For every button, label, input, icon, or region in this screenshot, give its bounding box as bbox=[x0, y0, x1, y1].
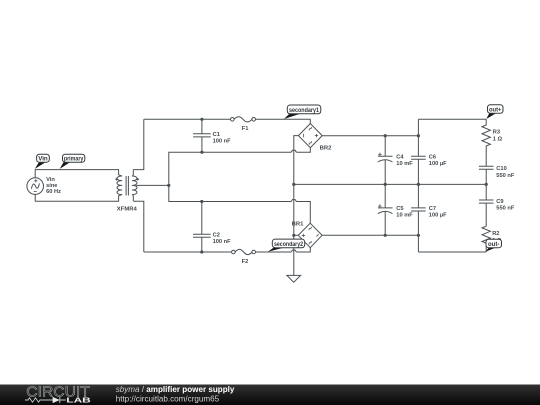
wire top rail right bbox=[418, 118, 486, 120]
svg-text:out-: out- bbox=[488, 241, 500, 248]
bridge rectifier BR2 markings bbox=[304, 127, 318, 145]
svg-text:550 nF: 550 nF bbox=[496, 173, 515, 179]
transformer XFMR4 primary phase dot bbox=[115, 178, 117, 180]
svg-text:BR2: BR2 bbox=[320, 146, 333, 152]
junction C5 bottom bbox=[384, 234, 387, 237]
wire secondary bottom lead bbox=[133, 201, 144, 252]
capacitor C10 lead bbox=[485, 169, 487, 184]
node label secondary1 bbox=[284, 105, 321, 119]
transformer XFMR4 primary coil bbox=[117, 170, 122, 201]
capacitor C2 labels bbox=[213, 232, 232, 245]
footer logo diode bbox=[53, 397, 60, 403]
wire BR2 minus to ground vertical bbox=[294, 136, 299, 276]
capacitor C9 plates bbox=[479, 200, 494, 203]
capacitor C5 leads bbox=[384, 184, 386, 235]
junction C4 top bbox=[384, 134, 387, 137]
junction C10 C9 mid bbox=[485, 183, 488, 186]
capacitor C5 plus bbox=[378, 204, 382, 208]
svg-text:out+: out+ bbox=[489, 107, 502, 114]
svg-text:LAB: LAB bbox=[66, 396, 91, 405]
capacitor C9 leads bbox=[485, 184, 487, 226]
capacitor C6 labels bbox=[429, 154, 447, 167]
capacitor C4 labels bbox=[396, 154, 413, 167]
junction BR1 plus ground bbox=[292, 234, 295, 237]
resistor R3 bbox=[482, 119, 490, 166]
svg-text:http://circuitlab.com/crgum65: http://circuitlab.com/crgum65 bbox=[116, 395, 220, 404]
svg-text:100 nF: 100 nF bbox=[213, 239, 232, 245]
svg-text:secondary1: secondary1 bbox=[289, 107, 319, 114]
wire bottom rail to F2 bbox=[144, 251, 232, 253]
junction C7 bottom bbox=[417, 234, 420, 237]
junction C2 top bbox=[200, 200, 203, 203]
bridge rectifier BR2 diamond bbox=[298, 124, 322, 148]
wire primary bottom bbox=[35, 194, 118, 201]
node label primary bbox=[60, 154, 85, 169]
svg-text:10 mF: 10 mF bbox=[396, 161, 413, 167]
ground symbol bbox=[287, 275, 301, 282]
wire secondary top lead bbox=[133, 119, 144, 169]
capacitor C10 plates bbox=[479, 166, 494, 169]
svg-text:C5: C5 bbox=[396, 206, 403, 212]
capacitor C6 leads bbox=[417, 119, 419, 184]
svg-text:100 µF: 100 µF bbox=[429, 213, 447, 219]
svg-text:C6: C6 bbox=[429, 154, 436, 160]
wire center tap bbox=[136, 184, 169, 186]
resistor R3 labels bbox=[493, 130, 503, 143]
wire top rail to F1 bbox=[144, 118, 231, 120]
junction mid rail ground bbox=[292, 183, 295, 186]
wire link left section bbox=[169, 152, 291, 201]
svg-text:C4: C4 bbox=[396, 154, 404, 160]
svg-text:1 Ω: 1 Ω bbox=[493, 136, 503, 142]
capacitor C1 plates bbox=[193, 134, 211, 137]
svg-text:F2: F2 bbox=[242, 259, 249, 265]
svg-text:60 Hz: 60 Hz bbox=[46, 189, 61, 195]
wire hop over ground at bottom rail bbox=[291, 250, 296, 252]
wire hop over ground at BR2 link bbox=[291, 150, 296, 152]
svg-text:550 nF: 550 nF bbox=[496, 206, 515, 212]
junction C6 top bbox=[417, 134, 420, 137]
wire mid rail bbox=[294, 183, 486, 185]
svg-text:R3: R3 bbox=[493, 130, 500, 136]
node label out- bbox=[486, 239, 502, 251]
capacitor C4 plates bbox=[378, 156, 393, 162]
wire BR2 bottom link bbox=[296, 148, 310, 153]
svg-text:10 mF: 10 mF bbox=[396, 213, 413, 219]
capacitor C7 leads bbox=[417, 184, 419, 252]
junction C6 C7 mid bbox=[417, 183, 420, 186]
capacitor C9 labels bbox=[496, 199, 515, 212]
fuse F2 bbox=[232, 250, 236, 254]
voltage source V1 labels bbox=[46, 177, 61, 195]
wire hop over ground at BR1 link bbox=[291, 200, 296, 202]
svg-text:C10: C10 bbox=[496, 166, 506, 172]
svg-text:C1: C1 bbox=[213, 132, 220, 138]
svg-text:F1: F1 bbox=[242, 126, 249, 132]
svg-text:Vin: Vin bbox=[38, 156, 48, 163]
svg-text:XFMR4: XFMR4 bbox=[117, 207, 138, 213]
bridge rectifier BR1 diamond bbox=[298, 223, 322, 248]
voltage source V1 minus sign bbox=[34, 191, 37, 193]
bridge rectifier BR1 markings bbox=[302, 227, 319, 245]
wire link to BR1 top bbox=[296, 202, 310, 224]
capacitor C1 leads bbox=[201, 119, 203, 152]
node label Vin bbox=[35, 154, 50, 169]
transformer XFMR4 core bbox=[126, 176, 128, 196]
transformer XFMR4 secondary coil bbox=[132, 170, 137, 201]
capacitor C2 plates bbox=[193, 234, 211, 237]
svg-text:R2: R2 bbox=[492, 231, 499, 237]
transformer XFMR4 secondary phase dot bbox=[136, 178, 138, 180]
capacitor C2 leads bbox=[201, 202, 203, 253]
wire BR1 plus stub bbox=[294, 234, 299, 236]
wire BR1 minus rail bbox=[322, 234, 418, 236]
capacitor C4 leads bbox=[384, 136, 386, 185]
capacitor C7 labels bbox=[429, 206, 447, 219]
wire bottom rail right bbox=[418, 251, 486, 253]
resistor R2 bbox=[482, 226, 490, 252]
voltage source V1 circle bbox=[27, 178, 44, 195]
capacitor C5 plates bbox=[378, 208, 393, 214]
node label out+ bbox=[486, 105, 503, 119]
resistor R2 labels bbox=[492, 231, 502, 244]
svg-text:100 nF: 100 nF bbox=[213, 139, 232, 145]
junction C1 top bbox=[200, 118, 203, 121]
wire F2 to hop bbox=[256, 251, 292, 253]
capacitor C5 labels bbox=[396, 206, 413, 219]
voltage source V1 sine glyph bbox=[31, 183, 39, 188]
svg-text:100 µF: 100 µF bbox=[429, 161, 447, 167]
junction C2 bottom bbox=[200, 250, 203, 253]
capacitor C4 plus bbox=[378, 153, 382, 157]
capacitor C6 plates bbox=[411, 156, 426, 159]
wire hop to BR1 bottom bbox=[296, 248, 310, 252]
junction center tap bbox=[167, 184, 170, 187]
svg-text:sbyma / amplifier power supply: sbyma / amplifier power supply bbox=[116, 385, 235, 394]
svg-text:C2: C2 bbox=[213, 232, 220, 238]
junction C1 bottom bbox=[200, 151, 203, 154]
wire F1 to BR2 top bbox=[256, 119, 311, 123]
svg-text:primary: primary bbox=[64, 156, 84, 163]
wire BR2 plus rail bbox=[322, 135, 418, 137]
footer bar bbox=[0, 385, 540, 405]
fuse F1 bbox=[231, 118, 235, 122]
capacitor C1 labels bbox=[213, 132, 232, 145]
svg-text:C9: C9 bbox=[496, 199, 503, 205]
junction C4 C5 mid bbox=[384, 183, 387, 186]
capacitor C10 labels bbox=[496, 166, 515, 179]
svg-text:C7: C7 bbox=[429, 206, 436, 212]
footer logo circuit doodle bbox=[25, 397, 66, 403]
wire primary top bbox=[35, 170, 118, 178]
voltage source V1 plus sign bbox=[34, 179, 37, 182]
capacitor C7 plates bbox=[411, 208, 426, 211]
svg-text:secondary2: secondary2 bbox=[274, 241, 303, 248]
node label secondary2 bbox=[268, 239, 305, 252]
